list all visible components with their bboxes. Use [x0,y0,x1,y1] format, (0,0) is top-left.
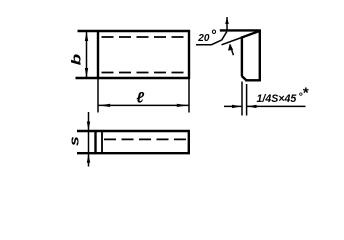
arrow down [85,68,88,78]
top face line with left extension [220,29,261,31]
svg-text:1/4S×45: 1/4S×45 [257,93,298,105]
chamfer dimension 1/4S x 45deg [224,82,306,116]
arrow pointing left at ext2 [247,105,257,108]
arrow up (outside below) [87,154,90,163]
bevel extension thin [222,37,244,45]
dashed centerline [104,138,188,140]
dim line left segment [224,105,242,107]
angular dimension 20deg [196,17,233,55]
bottom edge with left extension [77,152,190,154]
extension line 2 [246,84,248,116]
svg-text:20: 20 [197,33,210,44]
dimension s (vertical, left of strip) [87,112,90,167]
arc upper part (vertical overshoot above top line) [226,17,228,30]
svg-text:°: ° [211,27,217,42]
arrow pointing right at ext1 [232,105,242,108]
svg-text:ℓ: ℓ [136,90,144,107]
left edge [241,37,243,76]
main front view rectangle (knife plan view) [76,30,191,79]
dimension l (horizontal, below main view) [98,79,189,113]
top edge with left extension [77,130,190,132]
bevel face 20deg [241,31,260,38]
arrow right [177,104,189,107]
dim line right segment [247,105,306,107]
dimension b (vertical, left of main view) [85,31,88,78]
right edge [188,30,190,79]
bottom edge [245,79,261,81]
right edge [259,30,261,82]
upper arrowhead [225,17,229,24]
top edge with left extension [78,30,191,32]
hidden dashed line upper [102,36,189,38]
arc lower part below bevel [230,45,233,56]
left edge [97,30,99,79]
svg-text:b: b [69,54,83,66]
leader line from 20deg label [196,32,227,45]
right extension line [188,79,190,113]
hidden dashed line lower [102,72,189,74]
dimension line [98,104,189,106]
inner vertical line (bevel edge) [101,131,103,153]
svg-text:s: s [67,136,81,146]
extension line 1 [241,82,243,116]
side view of knife (right) [220,30,261,82]
right edge [188,130,190,154]
bottom edge view (thin strip) [77,130,190,154]
left edge [94,130,96,154]
bottom chamfer 45deg [242,76,247,80]
lower arrowhead [228,44,233,51]
arrow down (outside above) [87,122,90,131]
arrow left [99,104,111,107]
left extension line [97,79,99,113]
bottom edge with left extension [76,77,191,79]
arrow up [85,32,88,42]
